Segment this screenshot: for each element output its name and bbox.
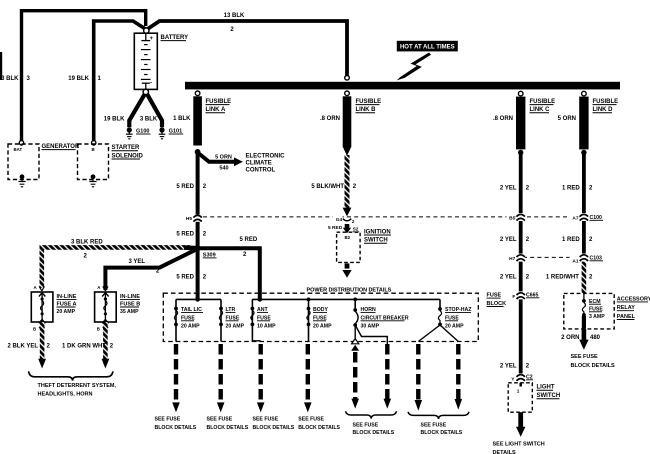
label 13 BLK: [224, 13, 245, 33]
svg-text:19 BLK: 19 BLK: [68, 76, 89, 82]
ignition switch (dashed box): [337, 229, 391, 262]
svg-text:3 YEL: 3 YEL: [129, 259, 146, 265]
svg-text:1 DK GRN WHT: 1 DK GRN WHT: [62, 343, 106, 349]
svg-text:SEE LIGHT SWITCH: SEE LIGHT SWITCH: [493, 441, 545, 447]
svg-text:SEE FUSE: SEE FUSE: [207, 416, 233, 422]
body fuse: [307, 299, 332, 341]
lightning bolt: [397, 53, 431, 81]
wire: horn breaker output right (dashed) with arrow: [384, 344, 392, 409]
label SEE FUSE BLOCK DETAILS (ant): [253, 416, 295, 431]
svg-text:HOT AT ALL TIMES: HOT AT ALL TIMES: [400, 45, 455, 51]
svg-text:LINK C: LINK C: [530, 107, 551, 113]
connector H5: [184, 215, 202, 223]
svg-text:5 ORN: 5 ORN: [558, 116, 576, 122]
ground inside generator: [18, 174, 25, 186]
svg-text:2 BLK YEL: 2 BLK YEL: [7, 343, 38, 349]
connector C665: [510, 292, 540, 300]
svg-text:A1: A1: [572, 258, 578, 264]
svg-text:HEADLIGHTS, HORN: HEADLIGHTS, HORN: [38, 392, 93, 398]
svg-text:BLOCK DETAILS: BLOCK DETAILS: [207, 425, 249, 431]
ground G100: [126, 127, 151, 138]
svg-text:20 AMP: 20 AMP: [57, 309, 76, 315]
svg-text:30 AMP: 30 AMP: [361, 323, 380, 329]
wire: 2 YEL H7 to C665: [500, 262, 530, 292]
label FUSE BLOCK: [487, 293, 507, 307]
svg-text:2 YEL: 2 YEL: [500, 237, 517, 243]
dashed interconnect line C103 level: [523, 256, 581, 258]
svg-text:BLOCK DETAILS: BLOCK DETAILS: [253, 425, 295, 431]
svg-text:2 YEL: 2 YEL: [500, 364, 517, 370]
generator terminal circle: [19, 141, 23, 145]
svg-text:BLOCK DETAILS: BLOCK DETAILS: [421, 430, 463, 436]
stop-haz output diagonals: [418, 325, 458, 342]
svg-text:1 BLK: 1 BLK: [173, 116, 191, 122]
wire: 5 RED S309 down to fuse block: [176, 248, 206, 299]
connector C2: [509, 374, 533, 383]
svg-text:19 BLK: 19 BLK: [104, 117, 125, 123]
svg-text:THEFT DETERRENT SYSTEM,: THEFT DETERRENT SYSTEM,: [38, 383, 117, 389]
wire: starter solenoid B to battery positive, circuit 1: [94, 21, 146, 141]
wire: 13 BLK battery positive to bus, circuit 2: [148, 21, 347, 76]
svg-text:LINK B: LINK B: [356, 107, 377, 113]
svg-text:B: B: [33, 326, 36, 331]
brace: theft deterrent loads: [29, 371, 114, 380]
horn circuit breaker: [353, 299, 409, 329]
fuse block internal bus: tail/ltr: [176, 297, 221, 302]
splice S309: [195, 245, 217, 258]
svg-text:5 RED: 5 RED: [176, 231, 194, 237]
battery negative terminal: [143, 89, 148, 94]
svg-text:3 BLK: 3 BLK: [140, 117, 158, 123]
connector A7 and label C100: [570, 214, 604, 222]
svg-text:BLOCK DETAILS: BLOCK DETAILS: [155, 425, 197, 431]
wire: 1 DK GRN WHT below in-line fuse B: [62, 322, 114, 369]
starter solenoid (dashed box): [78, 144, 109, 180]
svg-text:CLIMATE: CLIMATE: [246, 160, 272, 166]
svg-text:20 AMP: 20 AMP: [181, 323, 200, 329]
fusible link C: [493, 91, 555, 155]
svg-text:1 RED/WHT: 1 RED/WHT: [546, 275, 579, 281]
label SEE FUSE BLOCK DETAILS (ltr): [207, 416, 249, 431]
label ACCESSORY RELAY PANEL: [617, 296, 650, 320]
terminal circle: battery feed at bus: [345, 76, 350, 81]
svg-text:A7: A7: [572, 216, 578, 222]
wire: 5 RED S309 right branch to fuse block: [198, 237, 260, 300]
svg-text:1 RED: 1 RED: [562, 237, 580, 243]
svg-text:POWER DISTRIBUTION DETAILS: POWER DISTRIBUTION DETAILS: [307, 288, 392, 294]
svg-text:BLOCK DETAILS: BLOCK DETAILS: [298, 425, 340, 431]
svg-text:B5: B5: [509, 216, 515, 222]
in-line fuse A: [31, 285, 53, 331]
svg-text:.8 ORN: .8 ORN: [493, 116, 513, 122]
wire: ltr fuse output (dashed) with arrow: [217, 344, 225, 412]
svg-text:SEE FUSE: SEE FUSE: [155, 416, 181, 422]
svg-text:3 BLK RED: 3 BLK RED: [71, 240, 103, 246]
HOT AT ALL TIMES tag: [397, 41, 458, 52]
generator (dashed box): [8, 144, 39, 180]
wire: 3 YEL to in-line fuse B: [105, 250, 196, 290]
svg-text:2: 2: [352, 219, 355, 225]
wire: 2 YEL link C to B5: [500, 153, 530, 213]
in-line fuse B: [95, 285, 117, 331]
svg-text:+: +: [150, 36, 154, 42]
svg-text:H5: H5: [186, 216, 192, 222]
label IN-LINE FUSE B 35 AMP: [120, 294, 140, 315]
fuse block internal bus: ant/body/horn/stop-haz: [252, 297, 440, 302]
svg-text:5 BLK/WHT: 5 BLK/WHT: [311, 184, 344, 190]
svg-text:20 AMP: 20 AMP: [313, 323, 332, 329]
fusible link D: [558, 91, 619, 155]
connector B5: [507, 214, 526, 222]
label IN-LINE FUSE A 20 AMP: [57, 294, 77, 315]
label SEE FUSE BLOCK DETAILS (horn): [353, 423, 395, 437]
stop-haz fuse: [438, 299, 472, 329]
ground inside starter solenoid: [89, 174, 96, 186]
connector A1 and label C103: [570, 254, 604, 264]
wire: generator BAT to battery positive, circuit 3: [22, 11, 146, 141]
svg-text:F: F: [512, 294, 515, 300]
label 5 RED circuit 2: [176, 231, 206, 237]
wire: stop-haz output left (dashed) with arrow: [415, 344, 423, 411]
svg-text:B: B: [92, 147, 95, 152]
ground G101: [159, 127, 184, 138]
battery: [134, 33, 157, 89]
wire: 1 RED/WHT A1 to ECM fuse: [546, 262, 593, 294]
arrow below ignition switch: [342, 263, 351, 277]
svg-text:LINK D: LINK D: [593, 107, 614, 113]
wire: 2 YEL B5 to H7: [500, 221, 530, 254]
wire: tail lic fuse output (dashed) with arrow: [172, 344, 180, 412]
wire: 2 BLK YEL below in-line fuse A: [7, 322, 50, 369]
ant fuse: [251, 299, 277, 341]
svg-text:B2: B2: [344, 235, 350, 240]
label 19 BLK circuit 1 (solenoid wire): [68, 76, 101, 82]
wire: 2 ORN 480 below ECM fuse with arrow: [561, 329, 601, 350]
wire: horn breaker output left (dashed) with arrow: [351, 352, 359, 409]
svg-text:480: 480: [590, 335, 601, 341]
fusible link B: [320, 91, 381, 156]
wire: 3 BLK RED to in-line fuse A: [40, 240, 197, 288]
svg-text:G4: G4: [336, 217, 343, 223]
wire: 1 RED A7 to A1: [562, 221, 593, 254]
label SEE FUSE BLOCK DETAILS (body): [298, 416, 340, 431]
svg-text:LINK A: LINK A: [206, 107, 226, 113]
wire: 5 BLK/WHT link B to ignition switch: [311, 155, 356, 208]
horn breaker output: connector arrows and jog: [351, 325, 387, 351]
starter solenoid terminal circle: [92, 141, 96, 145]
wire: 5 RED into ignition switch: [328, 219, 359, 233]
svg-text:10 AMP: 10 AMP: [257, 323, 276, 329]
accessory relay panel (dashed box) with ECM fuse: [564, 293, 614, 329]
svg-text:BLOCK DETAILS: BLOCK DETAILS: [571, 363, 616, 369]
svg-text:5 ORN: 5 ORN: [215, 155, 232, 161]
label THEFT DETERRENT SYSTEM, HEADLIGHTS, HORN: [38, 383, 117, 398]
wire: stop-haz output right (dashed) with arrow: [455, 344, 463, 410]
label SEE FUSE BLOCK DETAILS (stop-haz): [421, 423, 463, 437]
power distribution details (dashed box): [163, 288, 478, 342]
brace: horn outputs: [346, 411, 397, 418]
svg-text:BAT: BAT: [14, 147, 23, 152]
label SEE FUSE BLOCK DETAILS (ECM): [571, 354, 616, 369]
svg-text:1 RED: 1 RED: [562, 186, 580, 192]
svg-text:2 ORN: 2 ORN: [561, 335, 579, 341]
svg-text:1: 1: [517, 388, 520, 394]
label SEE FUSE BLOCK DETAILS (tail lic): [155, 416, 197, 431]
wire: 3 BLK battery negative to G101: [147, 94, 162, 127]
svg-text:540: 540: [219, 166, 228, 172]
connector G4 at dashed line: [333, 208, 351, 224]
svg-text:3 AMP: 3 AMP: [589, 314, 605, 320]
label GENERATOR: [42, 144, 80, 150]
label STARTER SOLENOID: [112, 145, 144, 159]
svg-text:SEE FUSE: SEE FUSE: [421, 423, 447, 429]
label 13 BLK circuit 3 (generator wire): [0, 76, 31, 82]
wire: 5 RED link A splice to H5: [196, 152, 200, 215]
wire: 5 RED H5 to S309: [196, 222, 200, 248]
wire: 2 YEL C665 to C2: [500, 299, 530, 373]
label 5 RED circuit 2: [176, 184, 206, 190]
label ELECTRONIC CLIMATE CONTROL: [246, 154, 286, 174]
brace: stop-haz outputs: [408, 412, 469, 419]
bus bar (hot feed): [185, 82, 620, 90]
ltr fuse: [219, 299, 244, 341]
wire: 1 RED link D to A7: [562, 153, 593, 213]
wire: body fuse output (dashed) with arrow: [304, 344, 312, 412]
svg-text:DETAILS: DETAILS: [493, 450, 516, 454]
svg-text:SEE FUSE: SEE FUSE: [353, 423, 379, 429]
tail lic fuse: [174, 299, 203, 341]
svg-text:5 RED: 5 RED: [176, 184, 194, 190]
svg-text:H7: H7: [509, 256, 515, 262]
svg-text:13 BLK: 13 BLK: [0, 76, 19, 82]
svg-text:20 AMP: 20 AMP: [445, 323, 464, 329]
arrow below light switch: [516, 412, 525, 437]
svg-text:5 RED: 5 RED: [176, 275, 194, 281]
svg-text:CONTROL: CONTROL: [246, 167, 276, 173]
svg-text:5 RED: 5 RED: [240, 237, 258, 243]
svg-text:5 RED: 5 RED: [328, 225, 343, 231]
svg-text:20 AMP: 20 AMP: [226, 323, 245, 329]
light switch (dashed box): [508, 383, 560, 412]
svg-text:35 AMP: 35 AMP: [120, 309, 139, 315]
svg-text:2 YEL: 2 YEL: [500, 186, 517, 192]
svg-text:SEE FUSE: SEE FUSE: [298, 416, 324, 422]
wire: 5 ORN 540 branch to electronic climate control: [198, 153, 243, 172]
svg-text:SEE FUSE: SEE FUSE: [571, 354, 599, 360]
battery positive terminal: [144, 28, 149, 33]
label SEE LIGHT SWITCH DETAILS: [493, 441, 545, 454]
wire: 19 BLK battery negative to G100: [129, 94, 144, 127]
svg-text:-: -: [150, 81, 152, 87]
splice dot below fusible link A: [195, 149, 201, 155]
svg-text:2 YEL: 2 YEL: [500, 275, 517, 281]
wire: ant fuse output (dashed) with arrow: [252, 341, 264, 413]
label BATTERY: [161, 35, 189, 41]
dashed interconnect line C100 level: [203, 216, 581, 218]
svg-text:B: B: [97, 326, 100, 331]
svg-text:BLOCK DETAILS: BLOCK DETAILS: [353, 430, 395, 436]
svg-text:13 BLK: 13 BLK: [224, 13, 245, 19]
svg-text:.8 ORN: .8 ORN: [320, 116, 340, 122]
wire: cropped stub at left edge: [0, 52, 2, 80]
fusible link A: [173, 91, 231, 146]
svg-text:ELECTRONIC: ELECTRONIC: [246, 154, 286, 160]
svg-text:SEE FUSE: SEE FUSE: [253, 416, 279, 422]
connector H7: [507, 254, 526, 262]
